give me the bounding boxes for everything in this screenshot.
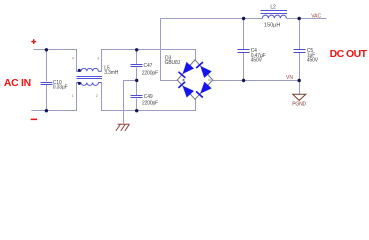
svg-text:150µH: 150µH [264, 22, 280, 28]
svg-text:C49: C49 [144, 94, 153, 100]
wire: AC neutral input bottom [32, 83, 77, 111]
svg-text:C47: C47 [144, 63, 153, 69]
capacitor C5 [294, 50, 306, 53]
wire: bridge + to top rail [161, 19, 178, 81]
bridge + mark [182, 79, 185, 82]
choke polarity dot bottom [78, 82, 81, 85]
wire: Y-cap midpoint to earth [124, 81, 137, 124]
svg-text:DC OUT: DC OUT [330, 48, 368, 60]
wire: bridge - to VN rail [213, 80, 300, 82]
bridge rectifier D3 body [177, 60, 212, 100]
svg-text:AC IN: AC IN [4, 78, 31, 89]
svg-text:VN: VN [286, 75, 293, 81]
diode D3c (- to AC1) [196, 62, 211, 78]
capacitor C10 [41, 83, 53, 85]
choke polarity dot top [78, 69, 81, 72]
wire: top DC rail [161, 18, 327, 20]
svg-text:450V: 450V [251, 57, 263, 63]
terminal - [31, 119, 37, 121]
capacitor C47 [131, 65, 143, 67]
wire: choke output bottom to bridge AC2 [102, 83, 196, 111]
common-mode choke L5 [77, 68, 102, 85]
svg-text:0.33µF: 0.33µF [53, 85, 68, 91]
svg-text:L2: L2 [270, 5, 276, 11]
svg-text:450V: 450V [307, 57, 319, 63]
wire: C5 column [299, 19, 301, 81]
power symbol PGND [293, 94, 306, 100]
wire: C10 column [46, 50, 48, 111]
capacitor C4 [238, 50, 250, 53]
L2 core lines [261, 11, 288, 14]
diode D3b (AC2 to +) [178, 82, 193, 98]
svg-text:3.3mH: 3.3mH [104, 70, 119, 76]
inductor L2 [262, 15, 286, 18]
diode D3d (- to AC2) [196, 82, 211, 98]
svg-text:2200pF: 2200pF [142, 71, 158, 77]
diode D3a (AC1 to +) [179, 62, 194, 78]
bridge - mark [208, 79, 211, 81]
choke core lines [77, 77, 102, 79]
wire: C47 C49 column [136, 50, 138, 111]
terminal + [31, 39, 36, 44]
wire: C4 column [243, 19, 245, 81]
wire: AC live input top [34, 50, 77, 72]
svg-text:4: 4 [72, 56, 74, 60]
svg-text:VAC: VAC [311, 14, 321, 20]
earth ground [116, 124, 129, 131]
wire: PGND stub [299, 81, 301, 95]
svg-text:2200pF: 2200pF [142, 100, 158, 106]
svg-text:2: 2 [96, 94, 98, 98]
svg-text:1: 1 [72, 94, 74, 98]
svg-text:PGND: PGND [292, 102, 306, 108]
capacitor C49 [131, 96, 143, 98]
svg-text:3: 3 [97, 56, 99, 60]
wire: choke output top to bridge AC1 [102, 50, 196, 72]
svg-text:GBU8J: GBU8J [165, 60, 181, 66]
